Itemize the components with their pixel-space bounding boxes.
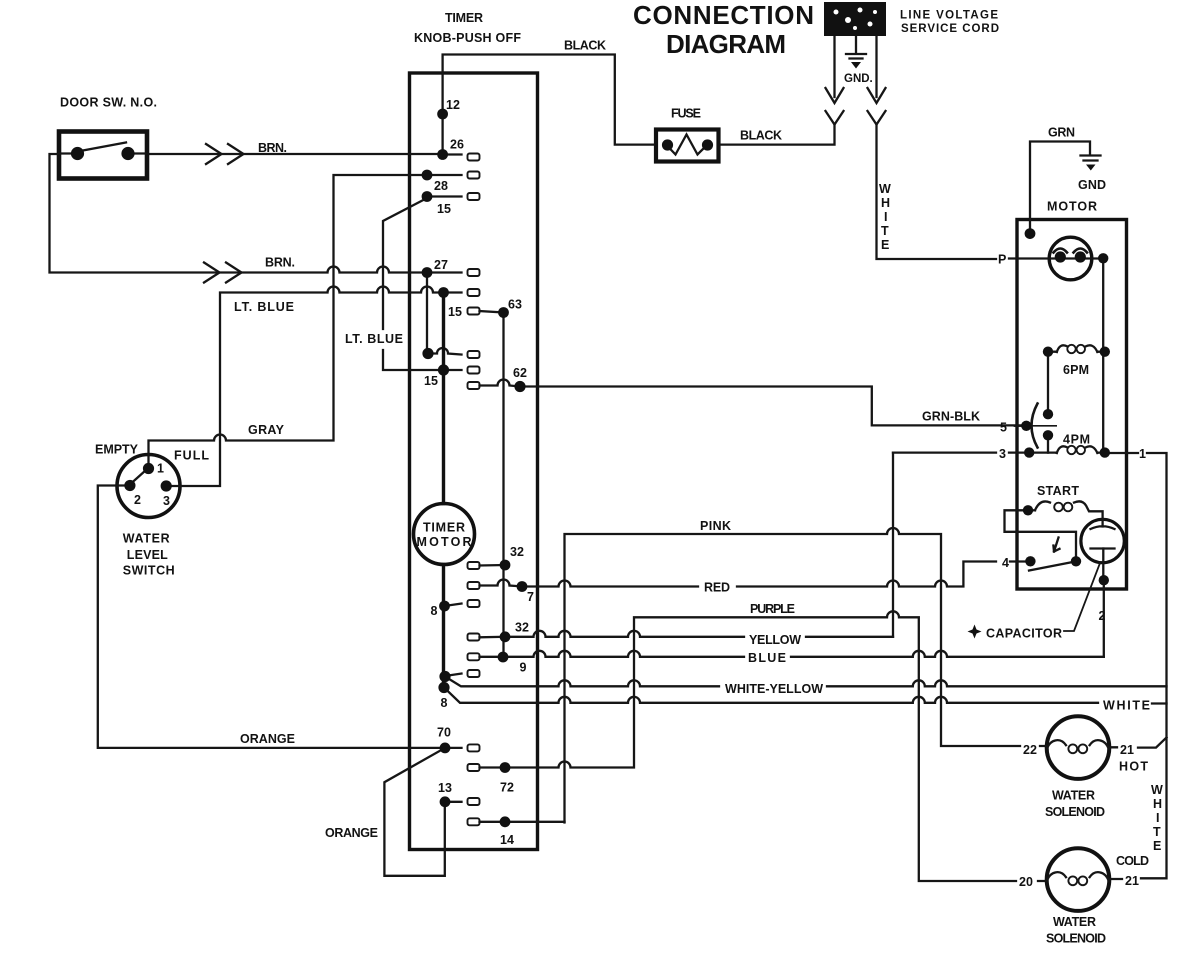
svg-text:WHITE-YELLOW: WHITE-YELLOW (725, 682, 823, 696)
svg-text:2: 2 (134, 493, 141, 507)
svg-text:12: 12 (446, 98, 460, 112)
svg-text:YELLOW: YELLOW (749, 633, 801, 647)
svg-text:LT. BLUE: LT. BLUE (234, 300, 294, 314)
svg-text:28: 28 (434, 179, 448, 193)
svg-text:4PM: 4PM (1063, 433, 1090, 447)
svg-text:I: I (884, 210, 887, 224)
svg-text:8: 8 (431, 604, 438, 618)
svg-text:15: 15 (424, 374, 438, 388)
svg-text:63: 63 (508, 298, 522, 312)
svg-text:BLACK: BLACK (740, 129, 782, 143)
svg-text:MOTOR: MOTOR (417, 535, 472, 549)
svg-text:MOTOR: MOTOR (1047, 200, 1097, 214)
svg-text:GRN: GRN (1048, 126, 1075, 140)
svg-text:BRN.: BRN. (258, 141, 287, 155)
svg-text:GND: GND (1078, 178, 1106, 192)
svg-text:8: 8 (441, 696, 448, 710)
svg-text:COLD: COLD (1116, 854, 1149, 868)
svg-text:20: 20 (1019, 875, 1033, 889)
svg-text:62: 62 (513, 366, 527, 380)
svg-text:LINE VOLTAGE: LINE VOLTAGE (900, 10, 998, 22)
svg-text:DIAGRAM: DIAGRAM (666, 29, 786, 59)
svg-text:WATER: WATER (1053, 915, 1096, 929)
svg-text:1: 1 (1139, 447, 1146, 461)
svg-text:W: W (1151, 783, 1163, 797)
svg-text:GRN-BLK: GRN-BLK (922, 410, 980, 424)
svg-text:9: 9 (520, 661, 527, 675)
svg-text:HOT: HOT (1119, 760, 1148, 774)
svg-text:70: 70 (437, 726, 451, 740)
svg-text:E: E (881, 238, 889, 252)
svg-text:3: 3 (999, 447, 1006, 461)
svg-text:3: 3 (163, 494, 170, 508)
svg-text:WATER: WATER (1052, 789, 1095, 803)
svg-text:T: T (1153, 825, 1161, 839)
svg-text:27: 27 (434, 258, 448, 272)
svg-text:LT. BLUE: LT. BLUE (345, 332, 403, 346)
svg-text:2: 2 (1099, 609, 1106, 623)
svg-text:1: 1 (157, 462, 164, 476)
svg-text:W: W (879, 182, 891, 196)
svg-text:22: 22 (1023, 743, 1037, 757)
svg-text:SOLENOID: SOLENOID (1046, 932, 1106, 946)
svg-text:14: 14 (500, 833, 514, 847)
svg-text:SOLENOID: SOLENOID (1045, 805, 1105, 819)
svg-text:KNOB-PUSH OFF: KNOB-PUSH OFF (414, 31, 521, 45)
svg-text:DOOR SW. N.O.: DOOR SW. N.O. (60, 96, 157, 110)
svg-text:SERVICE CORD: SERVICE CORD (901, 23, 999, 35)
svg-text:TIMER: TIMER (445, 11, 483, 25)
svg-text:32: 32 (515, 621, 529, 635)
svg-text:E: E (1153, 839, 1161, 853)
svg-text:26: 26 (450, 138, 464, 152)
svg-text:H: H (1153, 797, 1162, 811)
svg-text:BRN.: BRN. (265, 256, 295, 270)
svg-text:32: 32 (510, 545, 524, 559)
svg-text:ORANGE: ORANGE (240, 732, 295, 746)
svg-text:CAPACITOR: CAPACITOR (986, 627, 1062, 641)
svg-text:EMPTY: EMPTY (95, 443, 139, 457)
svg-text:15: 15 (437, 202, 451, 216)
svg-text:21: 21 (1125, 874, 1139, 888)
svg-text:PURPLE: PURPLE (750, 602, 795, 616)
svg-text:FUSE: FUSE (671, 107, 701, 121)
svg-text:13: 13 (438, 781, 452, 795)
svg-text:21: 21 (1120, 743, 1134, 757)
svg-text:CONNECTION: CONNECTION (633, 0, 814, 30)
svg-text:TIMER: TIMER (423, 521, 465, 535)
svg-text:LEVEL: LEVEL (127, 548, 168, 562)
svg-text:5: 5 (1000, 421, 1007, 435)
svg-text:RED: RED (704, 581, 730, 595)
svg-text:FULL: FULL (174, 449, 209, 463)
svg-text:H: H (881, 196, 890, 210)
svg-text:SWITCH: SWITCH (123, 564, 175, 578)
svg-text:BLACK: BLACK (564, 39, 606, 53)
svg-text:BLUE: BLUE (748, 651, 786, 665)
svg-text:GRAY: GRAY (248, 423, 285, 437)
svg-text:I: I (1156, 811, 1159, 825)
svg-text:GND.: GND. (844, 73, 873, 85)
svg-text:WHITE: WHITE (1103, 699, 1150, 713)
svg-text:P: P (998, 253, 1006, 267)
svg-text:15: 15 (448, 305, 462, 319)
svg-text:7: 7 (527, 590, 534, 604)
svg-text:ORANGE: ORANGE (325, 826, 378, 840)
svg-text:WATER: WATER (123, 532, 170, 546)
svg-text:START: START (1037, 484, 1079, 498)
svg-text:4: 4 (1002, 556, 1009, 570)
svg-text:PINK: PINK (700, 519, 731, 533)
svg-text:6PM: 6PM (1063, 363, 1089, 377)
svg-text:72: 72 (500, 781, 514, 795)
svg-text:T: T (881, 224, 889, 238)
